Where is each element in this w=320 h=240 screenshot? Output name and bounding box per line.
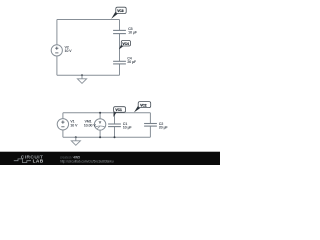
voltage source V1 xyxy=(57,119,78,130)
svg-text:VC1: VC1 xyxy=(115,108,122,112)
ground (top circuit) xyxy=(77,74,86,83)
wire bottom xyxy=(63,136,150,138)
svg-text:VC3: VC3 xyxy=(117,9,124,13)
flag VC3 xyxy=(111,7,126,19)
node top wire / VM1 xyxy=(99,112,101,114)
svg-text:VC4: VC4 xyxy=(122,42,129,46)
svg-text:VC2: VC2 xyxy=(140,103,147,107)
wire C1 branch lower xyxy=(114,127,116,137)
wire right middle xyxy=(119,34,121,61)
capacitor C1 xyxy=(108,122,132,129)
junction node dots xyxy=(99,112,115,138)
capacitor C4 xyxy=(113,57,136,64)
svg-text:10 V: 10 V xyxy=(70,124,78,128)
svg-text:http://circuitlab.com/crc/5nc3: http://circuitlab.com/crc/5nc3u8t3ta/ku xyxy=(60,160,114,164)
svg-text:V: V xyxy=(99,120,102,125)
wire top (node VC3 net) xyxy=(57,19,120,21)
svg-text:20 µF: 20 µF xyxy=(159,125,168,129)
node bottom wire / C1 xyxy=(114,136,116,138)
node top wire / C1 xyxy=(114,112,116,114)
voltmeter VM1 xyxy=(84,119,106,130)
wire right upper xyxy=(149,113,151,124)
wire VM1 bottom lead xyxy=(99,130,101,137)
wire left xyxy=(56,20,58,76)
wire C1 branch upper xyxy=(114,113,116,124)
svg-text:10 µF: 10 µF xyxy=(123,125,132,129)
wire bottom xyxy=(57,74,120,76)
node bottom wire / VM1 xyxy=(99,136,101,138)
svg-text:10.00 V: 10.00 V xyxy=(84,124,96,128)
svg-text:10 V: 10 V xyxy=(65,49,73,53)
capacitor C3 xyxy=(113,27,137,35)
svg-text:20 µF: 20 µF xyxy=(127,60,136,64)
wire right upper xyxy=(119,20,121,31)
svg-text:LAB: LAB xyxy=(33,159,44,165)
wire right lower xyxy=(149,126,151,137)
ground (bottom circuit) xyxy=(71,136,80,145)
wire VM1 top lead xyxy=(99,113,101,119)
voltage source V2 xyxy=(51,45,72,56)
capacitor C2 xyxy=(144,122,168,130)
flag VC1 xyxy=(113,107,125,117)
wire right lower xyxy=(119,64,121,75)
logo waveform glyph xyxy=(14,159,31,163)
svg-text:10 µF: 10 µF xyxy=(128,31,137,35)
flag VC4 xyxy=(119,41,131,50)
wire top xyxy=(63,112,150,114)
flag VC2 xyxy=(134,102,151,113)
wire left xyxy=(62,113,64,137)
